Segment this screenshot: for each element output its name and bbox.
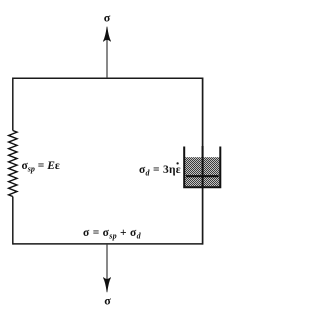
dashpot piston plate [186, 175, 219, 177]
bottom applied-stress arrow (wire) [106, 244, 108, 287]
wire: bottom side of parallel box [13, 243, 203, 245]
dot above epsilon (strain-rate dot) [176, 162, 178, 164]
dashpot cylinder (cup walls and bottom) [184, 147, 220, 188]
wire: top side of parallel box [13, 77, 203, 79]
wire: right branch (dashpot piston rod, full height) [202, 78, 204, 245]
svg-text:σd = 3ηε: σd = 3ηε [139, 164, 181, 178]
svg-text:σ = σsp + σd: σ = σsp + σd [83, 227, 142, 241]
dashpot fluid fill (stippled) [185, 157, 220, 186]
svg-text:σsp = Eε: σsp = Eε [22, 160, 60, 174]
dashpot piston rod segment (over fluid) [202, 146, 204, 187]
svg-text:σ: σ [104, 11, 111, 25]
bottom arrowhead [103, 278, 110, 292]
top arrowhead [103, 27, 110, 41]
wire: left branch lower segment [12, 197, 14, 245]
wire: left branch upper segment [12, 78, 14, 131]
svg-text:σ: σ [104, 294, 111, 308]
spring (left branch zigzag) [9, 131, 17, 197]
top applied-stress arrow (wire) [106, 31, 108, 78]
